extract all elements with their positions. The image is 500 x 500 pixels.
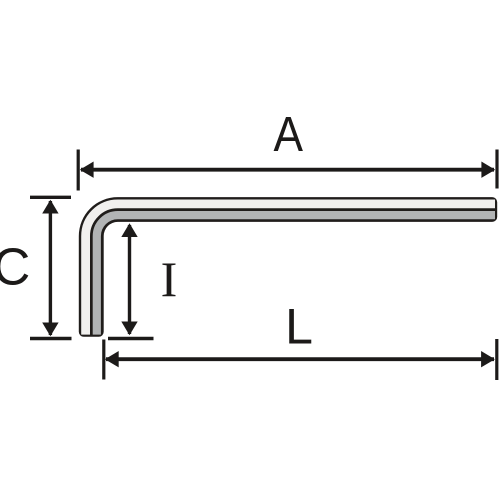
svg-text:L: L xyxy=(285,299,313,355)
hex key shaded band (inner/gray half) xyxy=(97,215,495,335)
dimension L: left arrowhead xyxy=(105,351,119,367)
dimension L: right tick xyxy=(495,339,498,380)
dimension C: top tick xyxy=(30,196,71,199)
svg-text:I: I xyxy=(161,251,178,307)
dimension I: bottom tick xyxy=(108,337,154,340)
dimension C: shaft xyxy=(49,201,52,335)
dimension L: shaft xyxy=(106,357,494,361)
dimension C: up arrowhead xyxy=(42,200,58,214)
dimension A: right tick xyxy=(495,150,498,189)
dimension I: down arrowhead xyxy=(121,322,137,336)
hex key highlight band (outer/light half) xyxy=(86,204,495,335)
dimension I: up arrowhead xyxy=(121,223,137,237)
dimension A: left arrowhead xyxy=(80,162,94,178)
dimension C: down arrowhead xyxy=(42,323,58,337)
dimension C: bottom tick xyxy=(30,337,72,340)
hex key silhouette (dark outline fill) xyxy=(79,197,497,337)
dimension L: right arrowhead xyxy=(481,351,495,367)
dimension I: shaft xyxy=(128,225,131,334)
dimension A: right arrowhead xyxy=(481,162,495,178)
dimension A: shaft xyxy=(81,168,494,172)
svg-text:C: C xyxy=(0,239,30,297)
svg-text:A: A xyxy=(273,108,303,162)
dimension L: left tick xyxy=(102,340,105,380)
dimension A: left tick xyxy=(77,150,80,191)
